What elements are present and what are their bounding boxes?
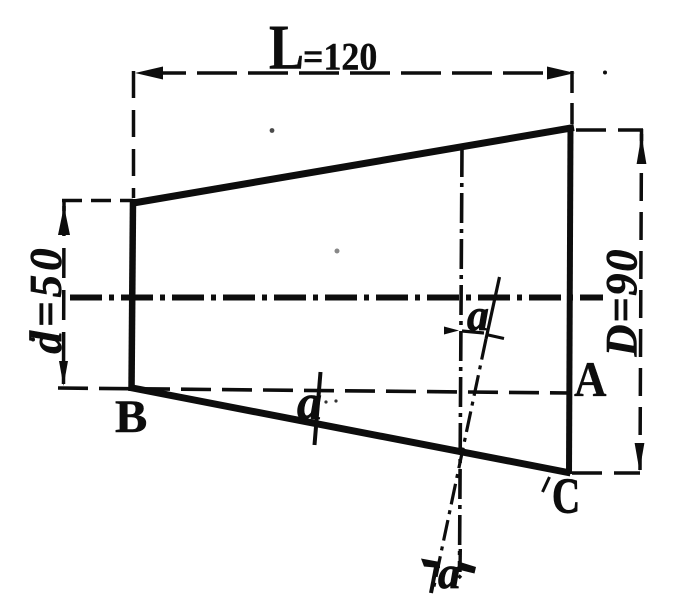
small arrow at center a mark <box>444 327 459 335</box>
dark speck above top edge left <box>270 128 275 133</box>
cone top edge <box>131 128 575 204</box>
prime mark before C <box>543 477 550 492</box>
tick across slanted line near center a <box>486 335 504 339</box>
D bottom arrowhead <box>635 443 645 471</box>
svg-text:a: a <box>297 374 322 430</box>
speck below d=50 <box>31 338 35 342</box>
svg-text:B: B <box>115 391 147 443</box>
tick across bottom edge near a <box>315 372 321 445</box>
section trace slanted line (solid part) <box>486 277 500 339</box>
svg-text:=120: =120 <box>303 36 377 79</box>
specks right of bottom a tick <box>324 400 327 403</box>
svg-text:L: L <box>269 12 304 83</box>
svg-text:a: a <box>438 548 461 598</box>
D top connector <box>576 128 643 132</box>
D bottom connector <box>572 471 640 475</box>
d dim corner stub <box>62 199 66 211</box>
faint speck above top edge <box>335 249 340 254</box>
d bottom arrowhead <box>59 361 68 386</box>
section line a-a (vertical dash-dot) <box>460 147 463 568</box>
cone left edge (small diameter d) <box>132 199 134 391</box>
L left arrowhead <box>135 67 163 80</box>
dimension line L=120 <box>146 71 566 75</box>
bottom a-a mark: right arrowhead <box>460 562 476 574</box>
section trace slanted line (dashed lower part) <box>433 339 486 591</box>
L extension line right <box>570 71 574 124</box>
bottom a-a mark: left arrowhead <box>421 559 440 569</box>
dashed line B to A (bottom reference line) <box>58 388 570 393</box>
speck right of L arrow <box>603 71 607 75</box>
dash right of center a mark <box>462 331 484 333</box>
section line tail stub <box>458 549 462 572</box>
D dim corner stub <box>640 129 644 141</box>
L extension line left <box>132 71 136 198</box>
bottom a-a mark: small stroke <box>431 567 436 593</box>
svg-text:C: C <box>552 467 580 523</box>
svg-text:a: a <box>467 291 489 340</box>
svg-text:A: A <box>574 353 606 408</box>
L right arrowhead <box>547 67 575 80</box>
svg-text:d=50: d=50 <box>21 244 71 353</box>
svg-text:D=90: D=90 <box>597 248 646 358</box>
D top arrowhead <box>637 135 647 164</box>
d top connector <box>62 199 133 203</box>
d top arrowhead <box>58 206 70 235</box>
dot after bottom a <box>459 576 462 579</box>
dimension line d=50 <box>62 206 66 384</box>
cone right edge (large diameter D) <box>569 126 571 474</box>
dimension line D=90 <box>640 134 642 470</box>
cone bottom edge <box>130 388 571 474</box>
axis center line (dash-dot) <box>70 295 603 301</box>
